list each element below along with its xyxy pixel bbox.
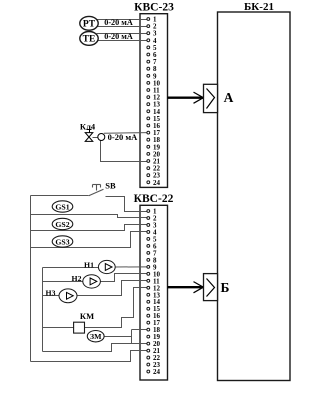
svg-text:0-20 мА: 0-20 мА bbox=[108, 132, 138, 142]
svg-text:КМ: КМ bbox=[80, 311, 94, 321]
svg-text:0-20 мА: 0-20 мА bbox=[104, 32, 133, 41]
svg-text:H2: H2 bbox=[72, 274, 82, 283]
svg-text:РТ: РТ bbox=[83, 20, 96, 30]
svg-text:H1: H1 bbox=[84, 260, 94, 269]
svg-text:GS3: GS3 bbox=[55, 237, 69, 246]
svg-text:24: 24 bbox=[153, 368, 161, 376]
svg-text:GS2: GS2 bbox=[55, 220, 69, 229]
svg-text:ТЕ: ТЕ bbox=[83, 35, 96, 45]
svg-text:КВС-23: КВС-23 bbox=[134, 2, 174, 14]
svg-text:H3: H3 bbox=[46, 288, 56, 297]
svg-text:24: 24 bbox=[153, 179, 161, 187]
svg-text:ЗМ: ЗМ bbox=[90, 332, 102, 341]
svg-text:КВС-22: КВС-22 bbox=[134, 193, 174, 205]
svg-text:Б: Б bbox=[221, 280, 230, 295]
svg-text:А: А bbox=[224, 90, 234, 105]
svg-text:0-20 мА: 0-20 мА bbox=[104, 18, 133, 27]
svg-text:БК-21: БК-21 bbox=[244, 1, 274, 13]
svg-text:GS1: GS1 bbox=[55, 202, 69, 211]
svg-text:SB: SB bbox=[105, 180, 116, 190]
